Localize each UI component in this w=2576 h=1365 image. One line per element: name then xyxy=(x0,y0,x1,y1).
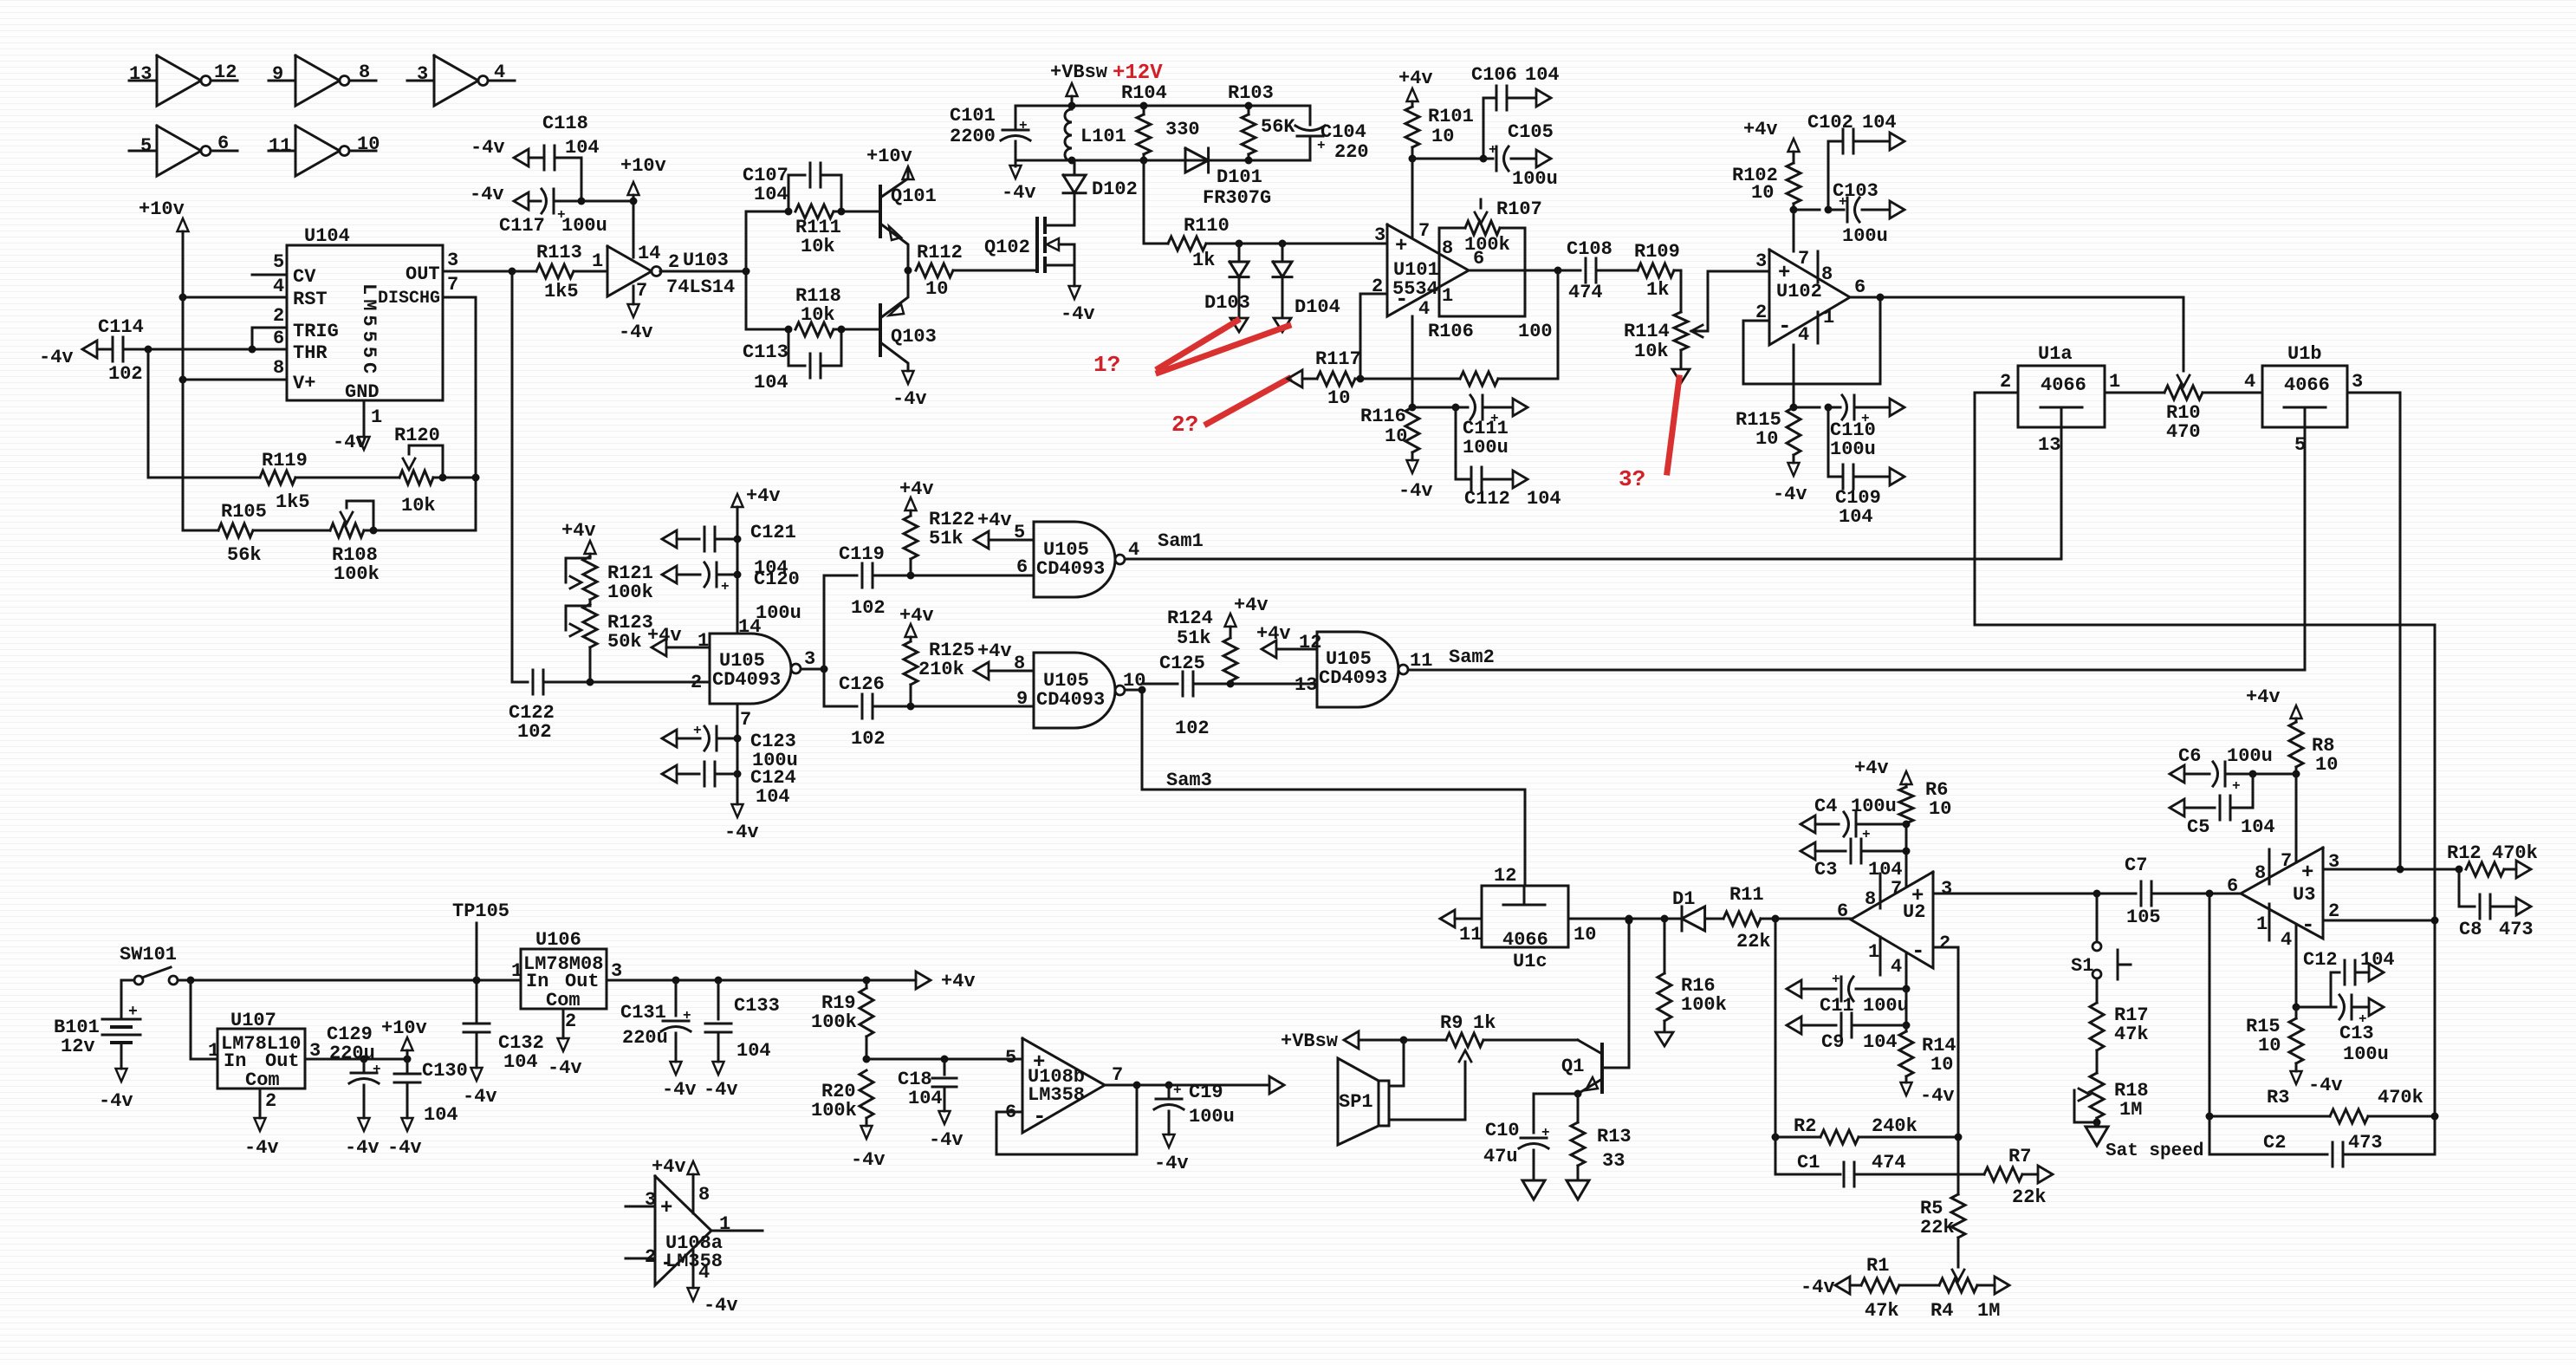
svg-text:102: 102 xyxy=(1175,718,1210,739)
capacitor C120 100u xyxy=(662,566,677,583)
svg-text:10: 10 xyxy=(1929,798,1951,820)
op-amp U108b LM358 xyxy=(1022,1038,1105,1133)
svg-text:-4v: -4v xyxy=(244,1137,279,1159)
svg-text:470: 470 xyxy=(2166,421,2201,443)
wire U101 output xyxy=(1469,270,1558,272)
resistor R11 22k xyxy=(1705,918,1723,920)
resistor R8 10 xyxy=(2289,722,2303,767)
svg-text:7: 7 xyxy=(1418,220,1430,242)
wire U104 OUT pin3 xyxy=(443,270,512,273)
capacitor C13 100u xyxy=(2296,1006,2336,1009)
svg-text:+: + xyxy=(1019,118,1028,133)
op-amp U101 5534 xyxy=(1387,224,1469,316)
svg-text:1M: 1M xyxy=(2119,1099,2142,1121)
svg-text:U1c: U1c xyxy=(1513,951,1548,972)
svg-text:22k: 22k xyxy=(2012,1186,2047,1208)
svg-text:5: 5 xyxy=(140,135,152,157)
capacitor C122 102 xyxy=(512,681,528,684)
wire U3 pin4 down xyxy=(2295,925,2298,1007)
wire U1a pin1 to R10 xyxy=(2105,392,2164,394)
potentiometer R10 470 xyxy=(2164,386,2203,400)
svg-text:10: 10 xyxy=(2258,1035,2281,1056)
svg-text:+4v: +4v xyxy=(1854,757,1889,779)
svg-text:C103: C103 xyxy=(1833,180,1878,202)
svg-text:Sam3: Sam3 xyxy=(1166,770,1212,791)
svg-text:473: 473 xyxy=(2499,919,2534,940)
svg-text:1k5: 1k5 xyxy=(544,281,579,302)
svg-text:+: + xyxy=(1541,1125,1550,1141)
transistor Q102 MOSFET xyxy=(1035,218,1039,271)
wire U108a output xyxy=(711,1230,762,1232)
svg-text:C118: C118 xyxy=(542,113,588,134)
svg-text:10: 10 xyxy=(925,278,948,300)
power -4v arrow U103 pin7 xyxy=(633,286,635,304)
svg-text:U1a: U1a xyxy=(2038,343,2073,365)
svg-text:R4: R4 xyxy=(1930,1300,1953,1322)
wire U104 pin2 TRIG elbow xyxy=(252,328,287,349)
capacitor C9 104 xyxy=(1905,989,1908,1025)
svg-text:D103: D103 xyxy=(1204,292,1250,314)
svg-text:-4v: -4v xyxy=(704,1295,738,1316)
svg-text:C11: C11 xyxy=(1820,995,1854,1017)
potentiometer R107 100k with offset box xyxy=(1439,228,1525,316)
diode D1 xyxy=(1681,907,1684,931)
svg-text:10: 10 xyxy=(2315,754,2338,776)
svg-text:3: 3 xyxy=(1941,878,1952,900)
resistor R14 10 xyxy=(1899,1031,1913,1076)
nand gate U105a CD4093 xyxy=(588,681,710,684)
svg-text:104: 104 xyxy=(754,372,788,393)
svg-text:2: 2 xyxy=(691,672,702,693)
svg-text:OUT: OUT xyxy=(406,263,440,285)
resistor R104 330 xyxy=(1137,114,1151,154)
op-amp U2 (left-pointing) xyxy=(1851,872,1933,968)
svg-text:10k: 10k xyxy=(801,236,835,257)
svg-text:56k: 56k xyxy=(227,544,262,566)
resistor R17 47k xyxy=(2096,978,2099,1003)
svg-text:+: + xyxy=(660,1197,672,1220)
resistor R103 56K xyxy=(1242,114,1256,154)
svg-text:C5: C5 xyxy=(2187,816,2209,838)
svg-text:R7: R7 xyxy=(2008,1146,2031,1167)
power -4v arrow U108a pin4 xyxy=(692,1249,695,1288)
svg-text:10: 10 xyxy=(1574,924,1596,946)
svg-text:2: 2 xyxy=(565,1011,576,1032)
wire U107 out xyxy=(305,1058,407,1061)
svg-text:4066: 4066 xyxy=(2284,374,2330,396)
svg-text:2: 2 xyxy=(273,305,284,327)
regulator U107 LM78L10 xyxy=(217,1029,305,1089)
wire U2 pin4 down xyxy=(1905,952,1908,989)
potentiometer R18 1M xyxy=(2090,1073,2104,1118)
wire R8 to U3 pin7 xyxy=(2295,774,2298,862)
svg-text:1?: 1? xyxy=(1093,352,1120,378)
diode D102 xyxy=(1074,160,1076,174)
svg-text:4: 4 xyxy=(698,1262,710,1284)
svg-text:+: + xyxy=(1395,235,1407,258)
svg-text:R103: R103 xyxy=(1228,82,1274,104)
wire Q1 emitter node xyxy=(1574,1090,1582,1098)
svg-text:-4v: -4v xyxy=(929,1129,964,1151)
svg-text:104: 104 xyxy=(756,786,790,808)
svg-text:CD4093: CD4093 xyxy=(1036,558,1105,580)
wire L101 bottom rail xyxy=(1015,159,1310,162)
power -4v arrow Q103 emitter xyxy=(903,371,914,384)
svg-text:13: 13 xyxy=(129,63,152,85)
wire U108b pin6 feedback xyxy=(996,1085,1137,1154)
svg-text:4066: 4066 xyxy=(2041,374,2086,396)
wire U103 output to Q101 stage xyxy=(660,270,746,273)
svg-text:474: 474 xyxy=(1568,282,1603,303)
svg-text:C126: C126 xyxy=(839,673,885,695)
capacitor C107 104 bridge xyxy=(746,211,788,213)
svg-text:-4v: -4v xyxy=(704,1079,738,1101)
svg-text:100k: 100k xyxy=(811,1011,857,1033)
svg-text:2200: 2200 xyxy=(950,126,996,147)
svg-text:Q1: Q1 xyxy=(1561,1056,1584,1077)
svg-text:+4v: +4v xyxy=(899,605,934,627)
wire R101 down to U101 pin7 xyxy=(1411,159,1414,237)
pin1 stub U102 xyxy=(1817,312,1820,343)
capacitor C104 220 xyxy=(1309,106,1312,125)
resistor R111 10k xyxy=(795,205,834,218)
svg-text:+: + xyxy=(693,723,702,738)
wire U3 pin2 row xyxy=(2323,920,2435,922)
svg-text:12v: 12v xyxy=(61,1036,95,1057)
svg-text:-4v: -4v xyxy=(619,322,653,343)
svg-text:C117: C117 xyxy=(499,215,545,237)
svg-text:104: 104 xyxy=(1527,488,1561,510)
resistor R115 10 xyxy=(1787,407,1801,455)
resistor R7 22k xyxy=(1958,1173,1984,1176)
op-amp U3 (left-pointing) xyxy=(2241,848,2323,939)
svg-text:1: 1 xyxy=(1823,307,1834,328)
svg-text:C131: C131 xyxy=(620,1002,666,1024)
svg-text:U104: U104 xyxy=(304,225,350,247)
svg-text:CD4093: CD4093 xyxy=(1319,667,1387,689)
svg-text:-4v: -4v xyxy=(1061,303,1095,325)
svg-text:+4v: +4v xyxy=(1234,595,1269,616)
regulator U106 LM78M08 xyxy=(521,949,607,1009)
svg-text:2: 2 xyxy=(668,251,679,273)
resistor R113 1k5 xyxy=(512,270,536,273)
svg-text:-4v: -4v xyxy=(99,1090,133,1112)
svg-text:1k: 1k xyxy=(1473,1012,1496,1034)
svg-text:+4v: +4v xyxy=(941,971,976,992)
svg-text:210k: 210k xyxy=(918,659,964,680)
svg-text:-4v: -4v xyxy=(1801,1277,1835,1298)
svg-text:14: 14 xyxy=(738,616,761,638)
svg-text:RST: RST xyxy=(293,289,328,310)
resistor R119 1k5 xyxy=(148,477,260,479)
svg-text:11: 11 xyxy=(1459,924,1482,946)
svg-text:1: 1 xyxy=(371,406,382,428)
svg-text:C125: C125 xyxy=(1159,653,1205,674)
svg-text:C3: C3 xyxy=(1814,859,1837,881)
svg-text:+4v: +4v xyxy=(561,520,596,542)
svg-text:D102: D102 xyxy=(1092,179,1138,200)
svg-text:LM555C: LM555C xyxy=(358,283,380,378)
potentiometer R114 10k xyxy=(1674,312,1688,350)
wire U102 pin4 down xyxy=(1793,345,1795,407)
svg-text:11: 11 xyxy=(1410,650,1432,672)
svg-text:100u: 100u xyxy=(1830,439,1876,460)
svg-text:2: 2 xyxy=(2000,371,2011,393)
capacitor C12 104 xyxy=(2331,972,2339,1007)
svg-text:C114: C114 xyxy=(98,316,144,338)
svg-text:SP1: SP1 xyxy=(1339,1091,1373,1113)
wire U3 left feedback vertical xyxy=(2209,894,2211,1154)
svg-text:R112: R112 xyxy=(917,242,963,263)
svg-text:+4v: +4v xyxy=(1398,68,1433,89)
resistor R15 10 xyxy=(2289,1018,2303,1063)
svg-text:C1: C1 xyxy=(1797,1152,1820,1173)
capacitor C114 102 xyxy=(82,341,97,358)
svg-text:-4v: -4v xyxy=(724,822,759,843)
wire main battery rail xyxy=(178,979,521,982)
svg-text:100u: 100u xyxy=(1189,1106,1235,1128)
svg-text:100: 100 xyxy=(1518,321,1553,342)
battery B101 12v xyxy=(120,980,123,1019)
svg-text:8: 8 xyxy=(2255,862,2266,884)
svg-text:10: 10 xyxy=(1930,1054,1953,1076)
svg-text:1k5: 1k5 xyxy=(276,491,310,513)
wire SP1 bottom to R9 wiper xyxy=(1389,1119,1465,1121)
capacitor C112 104 xyxy=(1455,407,1457,479)
wire U102 pin2 feedback loop xyxy=(1743,297,1880,384)
svg-text:C120: C120 xyxy=(754,569,800,590)
capacitor C101 2200 xyxy=(1015,106,1017,128)
svg-text:10: 10 xyxy=(1431,126,1454,147)
svg-text:+10v: +10v xyxy=(620,155,666,177)
wire U106 output +4v rail xyxy=(607,979,916,982)
svg-text:100u: 100u xyxy=(561,215,607,237)
svg-text:6: 6 xyxy=(1016,556,1028,578)
svg-text:D1: D1 xyxy=(1672,888,1695,910)
resistor R109 1k xyxy=(1638,263,1674,277)
svg-text:SW101: SW101 xyxy=(120,944,177,965)
svg-text:104: 104 xyxy=(754,184,788,205)
capacitor C121 104 xyxy=(662,530,677,548)
svg-text:C119: C119 xyxy=(839,543,885,565)
wire U1b pin3 long vertical xyxy=(2399,393,2402,869)
wire U104 GND pin1 to -4v xyxy=(363,400,366,437)
svg-text:C102: C102 xyxy=(1807,112,1853,133)
wire U106 Com to -4v xyxy=(562,1009,565,1038)
wire C7 node to S1 xyxy=(2096,894,2099,942)
resistor R16 100k xyxy=(1664,919,1666,973)
svg-text:3: 3 xyxy=(1755,250,1767,272)
svg-text:220: 220 xyxy=(1334,141,1369,163)
svg-text:8: 8 xyxy=(273,357,284,379)
svg-text:10: 10 xyxy=(1327,387,1350,409)
svg-text:C19: C19 xyxy=(1189,1082,1223,1103)
svg-text:13: 13 xyxy=(1294,674,1317,696)
svg-text:11: 11 xyxy=(269,135,291,157)
svg-text:R116: R116 xyxy=(1360,406,1406,427)
wire U101 pin4 down xyxy=(1411,316,1414,407)
wire U102 out to R10 wiper xyxy=(2183,297,2185,371)
svg-text:22k: 22k xyxy=(1736,931,1771,952)
svg-text:C2: C2 xyxy=(2263,1132,2286,1154)
wire R104 node down to R110 xyxy=(1143,160,1145,244)
svg-text:4: 4 xyxy=(1128,539,1139,561)
svg-text:6: 6 xyxy=(1837,900,1848,922)
svg-text:+4v: +4v xyxy=(746,485,781,507)
svg-text:-4v: -4v xyxy=(1398,480,1433,502)
wire Q1 base vertical to D1 node xyxy=(1628,920,1631,1068)
svg-text:+: + xyxy=(128,1004,138,1021)
svg-text:3: 3 xyxy=(417,63,428,85)
svg-text:14: 14 xyxy=(638,243,660,264)
svg-text:100u: 100u xyxy=(2227,745,2273,767)
svg-text:4: 4 xyxy=(1418,298,1430,320)
annotation red line to D103 xyxy=(1158,321,1237,368)
resistor R3 470k xyxy=(2209,1115,2330,1118)
resistor R110 1k xyxy=(1144,243,1168,245)
wire R109 to R114 top xyxy=(1674,270,1681,312)
svg-text:8: 8 xyxy=(359,62,370,83)
wire R6 to U2 pin7 xyxy=(1905,823,1908,887)
svg-text:CD4093: CD4093 xyxy=(1036,689,1105,711)
svg-text:+: + xyxy=(1173,1082,1182,1098)
svg-text:7: 7 xyxy=(1891,878,1902,900)
svg-text:C105: C105 xyxy=(1508,121,1554,143)
wire U105a pin7 down xyxy=(736,704,739,804)
svg-text:7: 7 xyxy=(740,709,751,731)
wire U104 DISCHG pin7 down xyxy=(443,297,476,530)
svg-text:104: 104 xyxy=(1863,1031,1898,1053)
svg-text:470k: 470k xyxy=(2378,1087,2424,1108)
potentiometer R9 1k xyxy=(1404,1039,1446,1042)
wire U105a output node xyxy=(801,668,824,671)
svg-text:6: 6 xyxy=(1854,276,1865,298)
svg-text:+4v: +4v xyxy=(1743,119,1778,140)
svg-text:473: 473 xyxy=(2348,1132,2383,1154)
diode D103 xyxy=(1238,244,1241,261)
svg-text:-: - xyxy=(2301,912,2315,938)
wire U104 pin8 V+ xyxy=(183,379,287,381)
svg-text:1M: 1M xyxy=(1977,1300,2000,1322)
svg-text:4: 4 xyxy=(2244,371,2255,393)
potentiometer R123 50k xyxy=(583,604,597,647)
svg-text:TRIG: TRIG xyxy=(293,321,339,342)
svg-text:R107: R107 xyxy=(1496,198,1542,220)
svg-text:-4v: -4v xyxy=(1920,1085,1955,1107)
svg-text:R114: R114 xyxy=(1624,321,1670,342)
IC U104 LM555C box xyxy=(287,245,443,400)
svg-text:100u: 100u xyxy=(756,602,801,624)
svg-text:102: 102 xyxy=(108,363,143,385)
capacitor C18 104 xyxy=(944,1059,946,1075)
svg-text:102: 102 xyxy=(851,728,886,750)
wire R117 to U101 pin2 elbow xyxy=(1355,378,1360,380)
svg-text:47k: 47k xyxy=(2114,1024,2149,1045)
op-amp U102 xyxy=(1769,250,1850,345)
svg-text:7: 7 xyxy=(2281,850,2292,872)
svg-text:3: 3 xyxy=(611,960,622,982)
svg-text:104: 104 xyxy=(1525,64,1560,86)
svg-text:4: 4 xyxy=(273,276,284,297)
resistor R105 56k xyxy=(183,530,218,532)
svg-text:Q103: Q103 xyxy=(891,326,937,348)
svg-text:R2: R2 xyxy=(1794,1115,1816,1137)
svg-text:100u: 100u xyxy=(1863,995,1909,1017)
analog switch U1b 4066 xyxy=(2262,366,2347,427)
inverter U103d xyxy=(129,150,157,153)
svg-text:+10v: +10v xyxy=(381,1017,427,1039)
capacitor C109 104 xyxy=(1827,407,1830,477)
wire +VB rail xyxy=(1015,105,1310,107)
inverter U103e xyxy=(269,150,295,153)
svg-text:104: 104 xyxy=(565,137,600,159)
potentiometer R4 1M xyxy=(1939,1278,1977,1292)
capacitor C106 104 xyxy=(1483,98,1485,159)
svg-text:100u: 100u xyxy=(1463,437,1509,458)
analog switch U1c 4066 xyxy=(1482,886,1568,947)
svg-text:10: 10 xyxy=(357,133,380,155)
inverter U103f 74LS14 xyxy=(607,270,609,273)
svg-text:4066: 4066 xyxy=(1502,929,1548,951)
svg-text:10k: 10k xyxy=(801,304,835,326)
transistor Q101 xyxy=(879,186,882,237)
svg-text:240k: 240k xyxy=(1872,1115,1917,1137)
capacitor C113 104 bridge xyxy=(746,328,788,331)
svg-text:C121: C121 xyxy=(750,522,796,543)
svg-text:3: 3 xyxy=(1374,224,1385,246)
svg-text:GND: GND xyxy=(345,381,380,403)
capacitor C6 100u xyxy=(2170,765,2184,783)
svg-text:L101: L101 xyxy=(1080,126,1126,147)
svg-text:8: 8 xyxy=(1865,888,1876,910)
svg-text:U102: U102 xyxy=(1776,281,1822,302)
potentiometer R121 100k xyxy=(583,556,597,600)
wire U1b pin5 to Sam2 xyxy=(2304,427,2307,670)
svg-text:CV: CV xyxy=(293,266,316,288)
wire U104 pin6 THR xyxy=(128,348,287,351)
capacitor C130 104 xyxy=(394,1073,420,1076)
svg-text:105: 105 xyxy=(2126,907,2161,928)
resistor R5 22k xyxy=(1957,1174,1960,1194)
svg-text:U107: U107 xyxy=(230,1010,276,1031)
svg-text:100k: 100k xyxy=(334,563,380,585)
svg-text:1: 1 xyxy=(2256,913,2268,935)
svg-text:+4v: +4v xyxy=(2246,686,2281,708)
svg-text:3: 3 xyxy=(447,250,458,271)
svg-text:U2: U2 xyxy=(1903,901,1925,923)
connector U1c pin11 xyxy=(1440,910,1455,927)
wire U105a pin14 supply xyxy=(736,507,739,634)
svg-text:-4v: -4v xyxy=(470,184,504,205)
svg-text:2: 2 xyxy=(1939,933,1950,954)
wire R19/R20 divider to U108b xyxy=(866,1058,1022,1061)
svg-text:+12V: +12V xyxy=(1113,62,1163,85)
capacitor C129 220u xyxy=(351,1072,377,1075)
svg-text:R11: R11 xyxy=(1729,884,1764,906)
wire U104 pin5 CV xyxy=(252,274,287,276)
svg-text:C10: C10 xyxy=(1485,1120,1520,1141)
svg-text:R124: R124 xyxy=(1167,608,1213,629)
svg-text:+: + xyxy=(683,1008,691,1024)
svg-text:R3: R3 xyxy=(2267,1087,2289,1108)
svg-text:7: 7 xyxy=(1112,1064,1123,1086)
capacitor C11 100u xyxy=(1787,980,1801,998)
capacitor C125 102 xyxy=(1142,683,1178,686)
wire U105c output node xyxy=(1126,689,1142,692)
wire U107 Com to -4v xyxy=(259,1089,262,1118)
capacitor C7 105 xyxy=(2097,893,2136,895)
svg-text:+: + xyxy=(1832,972,1840,987)
